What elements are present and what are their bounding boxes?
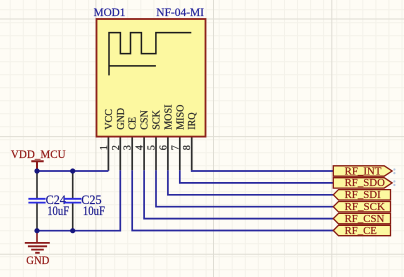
pin 2 GND bbox=[111, 108, 127, 170]
capacitor C25 bbox=[64, 171, 105, 231]
wire pin3 to RF_CE bbox=[132, 170, 333, 230]
port RF_CSN bbox=[333, 212, 390, 225]
pin 8 IRQ bbox=[182, 112, 198, 171]
svg-text:10uF: 10uF bbox=[83, 204, 105, 218]
port RF_CE bbox=[333, 224, 390, 237]
svg-text:3: 3 bbox=[123, 145, 134, 150]
svg-text:IRQ: IRQ bbox=[187, 112, 198, 130]
svg-text:2: 2 bbox=[111, 145, 122, 150]
junction (72.7,230.7) bbox=[70, 228, 75, 233]
svg-text:GND: GND bbox=[26, 255, 49, 267]
svg-text:RF_SDO: RF_SDO bbox=[345, 177, 385, 190]
wire pin4 to RF_CSN bbox=[144, 170, 333, 218]
no-ERC marker RF_SDO bbox=[393, 180, 395, 186]
svg-text:6: 6 bbox=[158, 145, 169, 150]
svg-text:4: 4 bbox=[135, 145, 146, 150]
wire pin6 to RF_SDI bbox=[168, 170, 334, 195]
svg-text:7: 7 bbox=[170, 145, 181, 150]
svg-text:VDD_MCU: VDD_MCU bbox=[11, 147, 66, 161]
pin 7 MISO bbox=[170, 105, 186, 171]
svg-text:CSN: CSN bbox=[140, 109, 151, 129]
wire pin7 to RF_SDO bbox=[180, 170, 334, 183]
antenna meander drawing bbox=[109, 33, 191, 76]
pin 4 CSN bbox=[135, 109, 151, 170]
pin 3 CE bbox=[123, 117, 139, 170]
svg-text:RF_CSN: RF_CSN bbox=[345, 212, 385, 225]
svg-text:10uF: 10uF bbox=[47, 204, 69, 218]
svg-text:RF_SCK: RF_SCK bbox=[345, 201, 385, 214]
svg-text:MOSI: MOSI bbox=[163, 105, 174, 130]
pin 6 MOSI bbox=[158, 105, 174, 171]
ground GND bbox=[25, 231, 50, 267]
capacitor C24 bbox=[28, 171, 69, 231]
power port VDD_MCU bbox=[11, 147, 66, 171]
port RF_SCK bbox=[333, 201, 390, 214]
svg-text:5: 5 bbox=[147, 145, 158, 150]
svg-text:RF_CE: RF_CE bbox=[345, 224, 378, 237]
wire pin1 VCC drop bbox=[107, 169, 109, 172]
pin 5 SCK bbox=[147, 109, 163, 170]
svg-text:NF-04-MI: NF-04-MI bbox=[156, 7, 204, 19]
svg-text:RF_INT: RF_INT bbox=[345, 165, 382, 178]
no-ERC marker RF_INT bbox=[393, 168, 395, 174]
svg-text:1: 1 bbox=[99, 145, 110, 150]
wire GND rail bbox=[37, 170, 120, 230]
svg-text:VCC: VCC bbox=[104, 109, 115, 130]
module MOD1 body bbox=[97, 19, 206, 137]
port RF_SDI bbox=[333, 189, 390, 202]
junction (72.7,171) bbox=[70, 168, 75, 173]
port RF_SDO bbox=[333, 177, 392, 190]
svg-text:GND: GND bbox=[116, 108, 127, 130]
junction (37,171) bbox=[34, 168, 39, 173]
pin 1 VCC bbox=[99, 109, 115, 171]
wire VDD rail bbox=[37, 170, 108, 172]
wire pin5 to RF_SCK bbox=[156, 170, 333, 206]
antenna feed line bbox=[109, 65, 156, 67]
svg-text:8: 8 bbox=[182, 145, 193, 150]
svg-text:RF_SDI: RF_SDI bbox=[345, 189, 381, 202]
svg-text:MOD1: MOD1 bbox=[94, 7, 126, 19]
port RF_INT bbox=[333, 165, 392, 178]
wire pin8 to RF_INT bbox=[192, 169, 334, 172]
svg-text:MISO: MISO bbox=[175, 105, 186, 130]
svg-text:CE: CE bbox=[128, 117, 139, 130]
svg-text:SCK: SCK bbox=[152, 109, 163, 129]
junction (37,230.7) bbox=[34, 228, 39, 233]
